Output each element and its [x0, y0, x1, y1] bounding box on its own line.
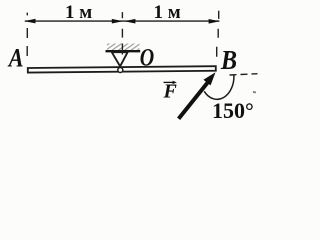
dimension arrowhead left at A: [24, 19, 35, 24]
dashed beam extension right of B: [230, 74, 258, 75]
svg-text:A: A: [7, 45, 24, 73]
dimension arrowhead left at O: [124, 19, 135, 24]
dimension line A-O-B: [25, 20, 220, 22]
support hatching: [107, 44, 140, 51]
force F arrowhead: [203, 72, 215, 85]
extension dashed line at B: [217, 11, 219, 57]
svg-text:1 м: 1 м: [154, 2, 181, 23]
svg-text:150°: 150°: [212, 98, 254, 123]
beam AB: [28, 66, 216, 72]
svg-text:F: F: [163, 81, 178, 103]
svg-text:1 м: 1 м: [65, 2, 92, 23]
extension dashed line at A: [26, 13, 28, 56]
dimension arrowhead right at O: [112, 19, 123, 24]
support triangle: [112, 52, 128, 66]
support ceiling line: [106, 50, 141, 52]
svg-text:O: O: [140, 43, 154, 71]
angle arc 150 deg: [204, 75, 234, 100]
force F shaft: [179, 80, 210, 119]
dimension arrowhead right at B: [209, 19, 220, 24]
svg-text:B: B: [220, 45, 237, 75]
extension dashed line at O: [121, 12, 123, 54]
small speck right: [253, 91, 256, 93]
pivot pin circle O: [118, 68, 123, 73]
